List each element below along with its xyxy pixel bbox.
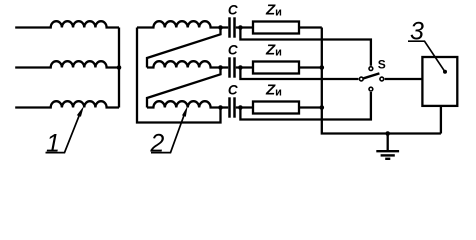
capacitor C row2 bbox=[230, 57, 235, 77]
arrowhead of label 1 bbox=[77, 106, 84, 117]
wire: delta closing loop (left and bottom of winding 2) bbox=[137, 28, 221, 123]
wire: row3 tap to capacitor bbox=[221, 106, 229, 108]
wire: device 3 to bottom rail bbox=[440, 106, 442, 134]
winding 2 phase A (delta, top row) bbox=[137, 21, 221, 27]
leader line of label 1 bbox=[46, 114, 81, 153]
wire: capacitor C row3 to Z box bbox=[236, 106, 253, 108]
wire: capacitor C row2 to Z box bbox=[236, 66, 253, 68]
wire: star point bus of winding 1 bbox=[118, 28, 120, 108]
junction node: star point of winding 1 bbox=[117, 65, 122, 70]
junction node: capacitor output row1 bbox=[238, 25, 243, 30]
impedance Zi row1 bbox=[253, 22, 299, 34]
wire: switch right contact to device 3 bbox=[385, 78, 423, 80]
wire: row2 branch to switch left contact bbox=[240, 68, 358, 80]
junction node: delta tap row2 bbox=[218, 65, 223, 70]
wire: capacitor C row1 to Z box bbox=[236, 26, 253, 28]
junction node: delta tap row1 bbox=[218, 25, 223, 30]
junction node: ground tap bbox=[385, 131, 390, 136]
switch S top contact bbox=[369, 67, 373, 71]
wire: common bus down and bottom rail bbox=[322, 28, 441, 134]
wire: Z row2 output to bus bbox=[299, 66, 322, 68]
winding 1 phase C (source, bottom row) bbox=[15, 101, 119, 107]
svg-text:C: C bbox=[228, 82, 238, 97]
winding 2 phase C (delta, bottom row) bbox=[147, 101, 221, 107]
wire: row2 tap to capacitor bbox=[221, 66, 229, 68]
winding 1 phase B (source, middle row) bbox=[15, 61, 119, 67]
leader dot of label 3 bbox=[443, 70, 447, 74]
wire: row1 branch to switch top contact bbox=[240, 28, 371, 66]
junction node: delta tap row3 bbox=[218, 105, 223, 110]
winding 2 phase B (delta, middle row) bbox=[147, 61, 221, 67]
capacitor C row3 bbox=[230, 97, 235, 117]
impedance Zi row2 bbox=[253, 62, 299, 74]
svg-text:C: C bbox=[228, 2, 238, 17]
arrowhead of label 2 bbox=[182, 106, 188, 117]
wire: delta link row2 to row3 bbox=[147, 68, 221, 108]
svg-text:Zи: Zи bbox=[265, 81, 282, 98]
wire: row1 tap to capacitor bbox=[221, 26, 229, 28]
svg-text:Zи: Zи bbox=[265, 41, 282, 58]
switch S left contact bbox=[359, 77, 363, 81]
svg-text:Zи: Zи bbox=[265, 1, 282, 18]
svg-text:S: S bbox=[378, 57, 386, 71]
wire: Z row3 output to bus bbox=[299, 106, 322, 108]
svg-text:C: C bbox=[228, 42, 238, 57]
impedance Zi row3 bbox=[253, 102, 299, 114]
junction node: bus row2 bbox=[320, 65, 325, 70]
junction node: bus row3 bbox=[320, 105, 325, 110]
switch S right contact bbox=[380, 77, 384, 81]
leader line of label 3 bbox=[408, 41, 445, 72]
wire: Z row1 output to bus bbox=[299, 26, 322, 28]
junction node: capacitor output row2 bbox=[238, 65, 243, 70]
ground bbox=[376, 134, 399, 159]
capacitor C row1 bbox=[230, 17, 235, 37]
device 3 box bbox=[422, 57, 457, 106]
winding 1 phase A (source, top row) bbox=[15, 21, 119, 27]
leader line of label 2 bbox=[151, 114, 185, 153]
wire: row3 branch to switch bottom contact bbox=[240, 92, 371, 120]
switch S bottom contact bbox=[369, 87, 373, 91]
wire: delta link row1 to row2 bbox=[147, 28, 221, 68]
junction node: capacitor output row3 bbox=[238, 105, 243, 110]
switch S blade bbox=[364, 73, 380, 78]
